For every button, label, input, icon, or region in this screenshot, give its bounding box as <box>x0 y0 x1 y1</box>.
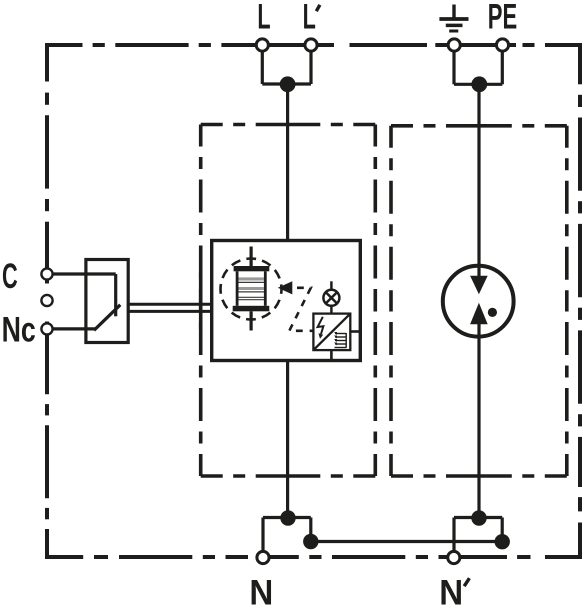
svg-text:C: C <box>2 257 18 296</box>
svg-text:PE: PE <box>488 0 517 36</box>
svg-text:N: N <box>439 573 463 612</box>
svg-text:N: N <box>249 573 273 612</box>
svg-text:Nc: Nc <box>2 310 36 349</box>
svg-text:L: L <box>257 0 270 37</box>
svg-text:L: L <box>303 0 316 37</box>
